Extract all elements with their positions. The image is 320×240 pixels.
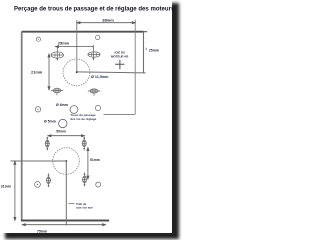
dim 75mm bottom xyxy=(22,224,105,226)
hole dia5 circle + label xyxy=(59,119,67,127)
small hole top-left xyxy=(35,35,100,112)
notch horizontal y=114 xyxy=(104,113,136,115)
svg-text:Perçage de trous de passage et: Perçage de trous de passage et de réglag… xyxy=(14,6,175,12)
center junction dots xyxy=(76,71,78,73)
slot TR xyxy=(82,137,87,150)
dim 21mm vertical xyxy=(48,54,50,90)
svg-text:Ø 5mm: Ø 5mm xyxy=(44,120,56,124)
plate right flap edge xyxy=(143,32,145,73)
svg-text:25mm: 25mm xyxy=(149,49,159,53)
svg-text:38mm: 38mm xyxy=(102,17,114,22)
dim 51mm right vertical xyxy=(87,148,89,179)
slot symbol left (57,90.5) xyxy=(51,88,64,96)
svg-text:51mm: 51mm xyxy=(90,158,100,162)
svg-text:scie sur axe: scie sur axe xyxy=(76,206,93,210)
slot BL xyxy=(46,174,51,187)
drop shadow xyxy=(5,3,179,239)
slotted hole ellipse2 xyxy=(88,47,100,60)
lower view: center lines xyxy=(11,161,67,225)
white page xyxy=(0,0,172,233)
small holes lower xyxy=(35,182,101,188)
slot TL xyxy=(45,137,50,150)
hole circle1 big xyxy=(63,59,90,86)
slot symbol right (94,91) xyxy=(88,88,101,96)
slot BR xyxy=(82,173,87,186)
svg-text:Ø 11,5mm: Ø 11,5mm xyxy=(91,75,109,79)
dim 31mm left vertical xyxy=(14,161,16,220)
plate top edge xyxy=(22,31,144,33)
axis cross + labels xyxy=(115,60,124,69)
plate bottom edge xyxy=(21,219,109,221)
note trait de scie xyxy=(69,203,75,205)
dim 25mm xyxy=(56,45,94,49)
dim 50mm top of lower view xyxy=(48,135,84,137)
svg-text:50mm: 50mm xyxy=(56,130,66,134)
svg-text:Ø 6mm: Ø 6mm xyxy=(56,103,68,107)
svg-text:25mm: 25mm xyxy=(58,40,70,45)
svg-text:75mm: 75mm xyxy=(37,230,47,234)
notch vertical x=135 xyxy=(134,20,136,115)
hole circle2 big xyxy=(53,148,80,175)
dim 38mm top xyxy=(77,22,135,24)
hole dia6 circle + label xyxy=(70,106,78,114)
svg-text:des vis de réglage: des vis de réglage xyxy=(70,117,96,121)
svg-text:MOTEUR AR: MOTEUR AR xyxy=(111,54,129,58)
circle1 vertical axis xyxy=(76,20,78,72)
svg-text:31mm: 31mm xyxy=(1,185,11,189)
svg-text:21mm: 21mm xyxy=(31,70,43,75)
label right 25mm xyxy=(145,48,147,50)
plate left edge xyxy=(21,32,23,221)
slotted hole ellipse1 xyxy=(51,47,63,61)
flap bottom / circle1 horizontal axis xyxy=(77,72,146,73)
